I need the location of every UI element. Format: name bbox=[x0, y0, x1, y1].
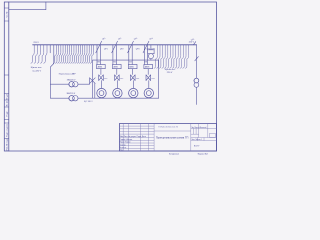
svg-text:Инв.№ подл: Инв.№ подл bbox=[5, 138, 8, 151]
svg-text:Сп.№: Сп.№ bbox=[5, 11, 8, 17]
svg-text:QF2: QF2 bbox=[120, 49, 124, 51]
svg-text:ВятГУ: ВятГУ bbox=[194, 146, 200, 148]
svg-text:220 V: 220 V bbox=[33, 42, 39, 44]
svg-text:Пров. Петров: Пров. Петров bbox=[120, 142, 131, 144]
svg-text:QF1: QF1 bbox=[104, 49, 108, 51]
svg-text:на 220 V: на 220 V bbox=[32, 70, 41, 72]
svg-text:Лист Листов 1: Лист Листов 1 bbox=[191, 139, 202, 141]
svg-text:Принципиальная схема ТП: Принципиальная схема ТП bbox=[156, 136, 189, 140]
svg-text:Вз.ин: Вз.ин bbox=[6, 100, 8, 106]
svg-text:АВМ1: АВМ1 bbox=[98, 66, 103, 69]
svg-text:Щиток осв.: Щиток осв. bbox=[31, 67, 43, 69]
svg-text:220 V: 220 V bbox=[189, 42, 195, 44]
svg-text:Т.контр.: Т.контр. bbox=[120, 144, 127, 146]
svg-text:380/220 V: 380/220 V bbox=[67, 93, 76, 95]
svg-text:ЩС 380 V: ЩС 380 V bbox=[84, 101, 93, 103]
svg-text:220 V: 220 V bbox=[167, 72, 173, 74]
svg-text:АВМ1: АВМ1 bbox=[145, 66, 150, 69]
svg-text:АВМ1: АВМ1 bbox=[114, 66, 119, 69]
svg-text:Подп.: Подп. bbox=[6, 110, 8, 116]
svg-text:Утв.: Утв. bbox=[120, 150, 124, 152]
svg-text:380/220 V: 380/220 V bbox=[67, 80, 76, 82]
svg-text:ТПЖА.130302.004 Э3: ТПЖА.130302.004 Э3 bbox=[158, 126, 179, 129]
svg-text:QF3: QF3 bbox=[136, 49, 140, 51]
svg-text:Копировал: Копировал bbox=[169, 153, 180, 155]
svg-text:Формат А3: Формат А3 bbox=[198, 152, 209, 155]
svg-text:КМ4: КМ4 bbox=[151, 78, 154, 80]
svg-text:Разраб. Иванов: Разраб. Иванов bbox=[120, 139, 132, 141]
svg-text:QF4: QF4 bbox=[151, 49, 155, 51]
svg-text:КМ2: КМ2 bbox=[120, 78, 123, 80]
svg-text:КМ3: КМ3 bbox=[136, 78, 139, 80]
svg-text:КМ1: КМ1 bbox=[104, 78, 107, 80]
svg-text:Переключат. АВР: Переключат. АВР bbox=[59, 72, 76, 75]
svg-text:АВМ1: АВМ1 bbox=[129, 66, 134, 69]
svg-text:Изм Лист № докум. Подп. Дата: Изм Лист № докум. Подп. Дата bbox=[120, 135, 146, 138]
svg-text:Подп. и дата: Подп. и дата bbox=[6, 123, 8, 137]
svg-text:Щиток осв.: Щиток осв. bbox=[165, 69, 176, 71]
svg-text:Ин.дб: Ин.дб bbox=[6, 93, 8, 100]
svg-text:Лит. Масса Масштаб: Лит. Масса Масштаб bbox=[191, 127, 206, 129]
svg-text:QF5: QF5 bbox=[146, 48, 150, 50]
